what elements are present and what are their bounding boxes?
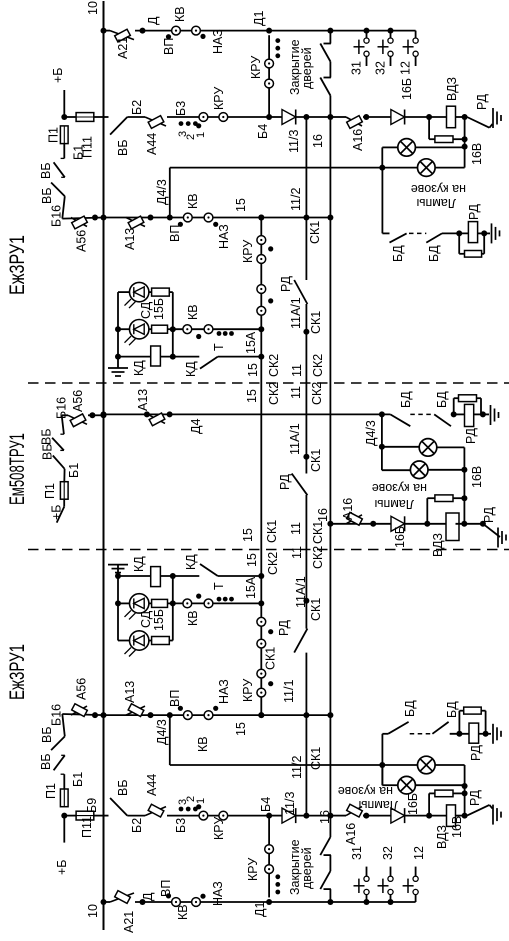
svg-text:Б2: Б2: [130, 100, 144, 115]
svg-text:Лампы: Лампы: [374, 497, 414, 511]
svg-text:РД: РД: [468, 789, 482, 806]
svg-text:Д4: Д4: [189, 419, 203, 434]
svg-text:ВП: ВП: [162, 38, 176, 55]
svg-text:ВБ: ВБ: [40, 428, 54, 445]
svg-text:11: 11: [289, 522, 303, 535]
svg-text:11: 11: [289, 386, 303, 399]
svg-text:11/2: 11/2: [289, 188, 303, 211]
svg-text:+Б: +Б: [51, 67, 65, 83]
svg-text:Д4/3: Д4/3: [364, 420, 378, 446]
svg-text:СК1: СК1: [309, 747, 323, 770]
svg-text:КД: КД: [184, 361, 198, 377]
svg-text:А13: А13: [136, 389, 150, 411]
svg-text:11: 11: [290, 364, 304, 377]
svg-text:на кузове: на кузове: [372, 481, 427, 495]
svg-text:П1: П1: [47, 127, 61, 143]
svg-text:15: 15: [234, 198, 248, 212]
svg-text:ВБ: ВБ: [39, 162, 53, 179]
svg-text:31: 31: [350, 61, 364, 75]
svg-text:16Б: 16Б: [400, 78, 414, 100]
svg-text:РД: РД: [464, 427, 478, 444]
svg-text:СД: СД: [139, 610, 153, 628]
svg-text:СК2: СК2: [267, 354, 281, 377]
svg-text:РД: РД: [482, 506, 496, 523]
svg-text:А56: А56: [75, 230, 89, 252]
svg-text:А16: А16: [344, 823, 358, 845]
svg-text:КД: КД: [132, 360, 146, 376]
svg-text:БД: БД: [391, 245, 405, 262]
svg-text:Лампы: Лампы: [416, 196, 456, 210]
svg-text:32: 32: [381, 846, 395, 860]
svg-text:ВП: ВП: [168, 225, 182, 242]
svg-text:А21: А21: [122, 911, 136, 933]
svg-text:дверей: дверей: [300, 847, 314, 889]
svg-text:РД: РД: [278, 473, 292, 490]
svg-text:Б16: Б16: [50, 704, 64, 726]
svg-text:11А/1: 11А/1: [289, 297, 303, 329]
svg-text:Б16: Б16: [50, 205, 64, 227]
svg-text:Б2: Б2: [130, 818, 144, 833]
svg-text:ВБ: ВБ: [40, 726, 54, 743]
svg-text:ВБ: ВБ: [116, 139, 130, 156]
svg-text:Т: Т: [212, 582, 226, 590]
svg-text:СК1: СК1: [264, 647, 278, 670]
svg-text:16Б: 16Б: [406, 793, 420, 815]
svg-text:РД: РД: [277, 619, 291, 636]
svg-text:БД: БД: [403, 700, 417, 717]
svg-text:15Б: 15Б: [152, 609, 166, 631]
svg-text:КРУ: КРУ: [246, 858, 260, 881]
svg-text:Д4/3: Д4/3: [155, 179, 169, 205]
svg-text:А13: А13: [123, 681, 137, 703]
svg-text:ВБ: ВБ: [39, 753, 53, 770]
svg-text:А44: А44: [145, 133, 159, 155]
svg-text:РД: РД: [467, 203, 481, 220]
svg-text:Б1: Б1: [72, 145, 86, 160]
svg-text:31: 31: [350, 846, 364, 860]
svg-text:Б4: Б4: [259, 797, 273, 812]
svg-text:КВ: КВ: [173, 6, 187, 22]
svg-text:дверей: дверей: [300, 47, 314, 89]
svg-text:СК2: СК2: [311, 546, 325, 569]
svg-text:СК1: СК1: [309, 449, 323, 472]
svg-text:Б1: Б1: [67, 463, 81, 478]
svg-text:15: 15: [245, 389, 259, 403]
svg-text:СК2: СК2: [267, 382, 281, 405]
svg-text:НАЗ: НАЗ: [211, 29, 225, 54]
svg-text:Еж3РУ1: Еж3РУ1: [6, 644, 29, 700]
svg-text:КД: КД: [132, 556, 146, 572]
svg-text:П1: П1: [44, 783, 58, 799]
svg-text:11А/1: 11А/1: [294, 576, 308, 608]
svg-text:на кузове: на кузове: [338, 784, 393, 798]
svg-text:СК1: СК1: [309, 311, 323, 334]
svg-text:СК1: СК1: [311, 521, 325, 544]
svg-text:А16: А16: [351, 129, 365, 151]
svg-text:РД: РД: [469, 744, 483, 761]
svg-text:Ем508ТРУ1: Ем508ТРУ1: [6, 433, 29, 505]
svg-text:КРУ: КРУ: [212, 87, 226, 110]
svg-text:на кузове: на кузове: [411, 182, 466, 196]
svg-text:КВ: КВ: [196, 736, 210, 752]
svg-text:КВ: КВ: [176, 904, 190, 920]
svg-text:1: 1: [195, 132, 207, 138]
svg-text:16Б: 16Б: [393, 526, 407, 548]
svg-text:НАЗ: НАЗ: [211, 881, 225, 906]
svg-text:11/3: 11/3: [283, 792, 297, 815]
svg-text:СК1: СК1: [308, 221, 322, 244]
svg-text:ВБ: ВБ: [40, 187, 54, 204]
svg-text:Б4: Б4: [256, 124, 270, 139]
svg-text:Д4/3: Д4/3: [155, 719, 169, 745]
svg-text:16В: 16В: [470, 143, 484, 165]
svg-text:15: 15: [234, 722, 248, 736]
svg-text:Д1: Д1: [252, 11, 266, 26]
svg-text:Д1: Д1: [253, 902, 267, 917]
svg-text:11А/1: 11А/1: [288, 423, 302, 455]
svg-text:А16: А16: [341, 498, 355, 520]
svg-text:16: 16: [311, 134, 325, 148]
svg-text:П11: П11: [80, 816, 94, 838]
svg-text:32: 32: [374, 61, 388, 75]
svg-text:КВ: КВ: [186, 193, 200, 209]
svg-text:СК2: СК2: [310, 382, 324, 405]
svg-text:11/1: 11/1: [282, 680, 296, 703]
svg-text:ВДЗ: ВДЗ: [435, 825, 449, 849]
svg-text:БД: БД: [399, 391, 413, 408]
svg-text:15: 15: [245, 553, 259, 567]
svg-text:НАЗ: НАЗ: [217, 679, 231, 704]
svg-text:Д: Д: [141, 892, 155, 901]
svg-text:10: 10: [86, 904, 100, 918]
svg-text:16: 16: [316, 508, 330, 522]
svg-text:БД: БД: [427, 245, 441, 262]
svg-text:СК1: СК1: [265, 520, 279, 543]
svg-text:Б3: Б3: [174, 101, 188, 116]
svg-text:1: 1: [195, 798, 207, 804]
svg-text:Д: Д: [146, 16, 160, 25]
svg-text:16: 16: [318, 810, 332, 824]
svg-text:Б9: Б9: [85, 798, 99, 813]
svg-text:16В: 16В: [470, 466, 484, 488]
svg-text:15А: 15А: [244, 331, 258, 354]
svg-text:БД: БД: [445, 701, 459, 718]
svg-text:КРУ: КРУ: [249, 56, 263, 79]
svg-text:СК2: СК2: [266, 552, 280, 575]
svg-text:12: 12: [399, 61, 413, 75]
svg-text:Б16: Б16: [55, 397, 69, 419]
svg-text:ВП: ВП: [159, 880, 173, 897]
svg-text:ВБ: ВБ: [41, 443, 55, 460]
svg-text:Лампы: Лампы: [358, 798, 398, 812]
svg-text:КРУ: КРУ: [212, 817, 226, 840]
svg-text:Т: Т: [212, 343, 226, 351]
svg-text:Еж3РУ1: Еж3РУ1: [6, 235, 29, 295]
svg-text:11/2: 11/2: [290, 756, 304, 779]
svg-text:КВ: КВ: [186, 610, 200, 626]
svg-text:СК2: СК2: [311, 354, 325, 377]
svg-text:НАЗ: НАЗ: [217, 224, 231, 249]
svg-text:А56: А56: [75, 678, 89, 700]
svg-text:БД: БД: [435, 391, 449, 408]
svg-text:ВДЗ: ВДЗ: [445, 77, 459, 101]
svg-text:Б1: Б1: [71, 772, 85, 787]
svg-text:СД: СД: [139, 301, 153, 319]
svg-text:16В: 16В: [450, 816, 464, 838]
svg-text:РД: РД: [475, 93, 489, 110]
svg-text:П1: П1: [43, 483, 57, 499]
svg-text:15: 15: [246, 363, 260, 377]
svg-text:СК1: СК1: [309, 598, 323, 621]
svg-text:15: 15: [241, 528, 255, 542]
svg-text:+Б: +Б: [55, 859, 69, 875]
svg-text:РД: РД: [279, 275, 293, 292]
svg-text:А13: А13: [123, 228, 137, 250]
svg-text:11: 11: [290, 546, 304, 559]
svg-text:10: 10: [86, 1, 100, 15]
svg-text:КРУ: КРУ: [241, 240, 255, 263]
svg-text:А21: А21: [116, 37, 130, 59]
svg-text:15Б: 15Б: [152, 298, 166, 320]
svg-text:КД: КД: [184, 554, 198, 570]
svg-text:ВБ: ВБ: [116, 779, 130, 796]
svg-text:КВ: КВ: [186, 304, 200, 320]
svg-text:КРУ: КРУ: [241, 679, 255, 702]
svg-text:ВП: ВП: [168, 690, 182, 707]
svg-text:+Б: +Б: [50, 504, 64, 520]
svg-text:ВДЗ: ВДЗ: [431, 533, 445, 557]
svg-text:15А: 15А: [244, 576, 258, 599]
svg-text:12: 12: [412, 846, 426, 860]
svg-text:А44: А44: [145, 774, 159, 796]
svg-text:Б3: Б3: [174, 818, 188, 833]
svg-text:А56: А56: [71, 390, 85, 412]
svg-text:11/3: 11/3: [287, 130, 301, 153]
